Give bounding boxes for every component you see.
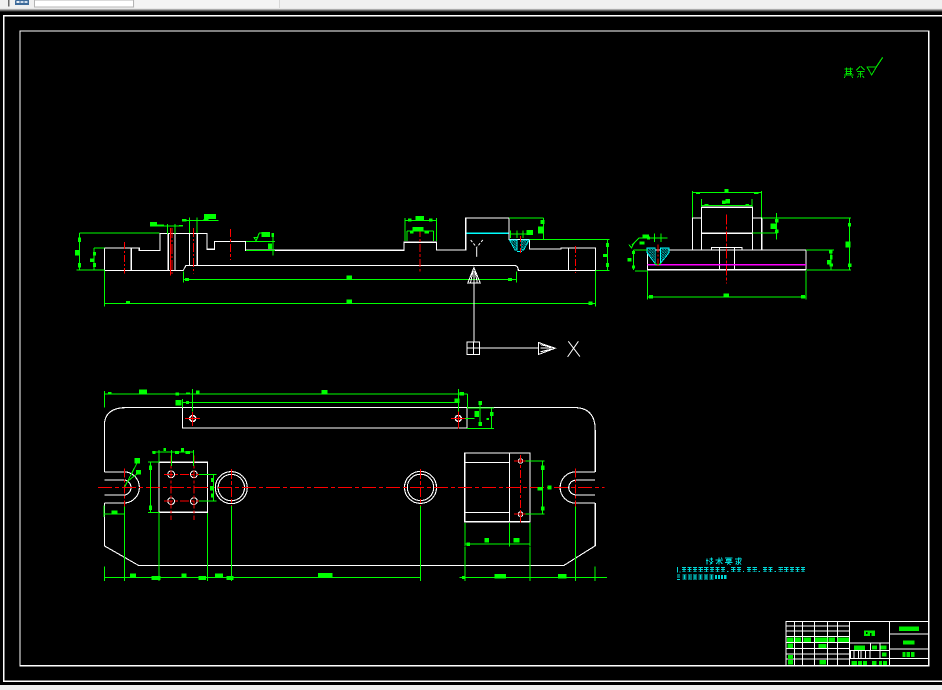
pv block holes dim right (525, 461, 551, 514)
center block hole centerlines (514, 455, 527, 523)
front view countersink hatch (509, 240, 529, 252)
pv slot oblique dim (125, 458, 141, 487)
front view outline (105, 218, 596, 271)
fv dims at countersink step (509, 218, 544, 239)
sv dim plate height right small (806, 250, 834, 270)
pv bottom chain dim left (104, 506, 420, 581)
bolt hole centerlines (164, 456, 201, 521)
circle centerlines (231, 469, 420, 506)
ucs origin box (467, 342, 480, 354)
pv bottom dim right (460, 506, 607, 581)
pv block bottom dim (465, 523, 530, 547)
front view centerline right block (574, 246, 576, 273)
side view magenta gasket line (648, 264, 806, 266)
toolbar strip (0, 0, 942, 12)
title block middle top cell black notches (866, 632, 871, 636)
fv dim right end height (530, 239, 610, 270)
sv dim bottom width (648, 271, 806, 299)
plan view right U-slot (560, 472, 595, 503)
plan view left U-slot (104, 472, 139, 503)
front view centerline small block (419, 229, 421, 272)
pv strip dim line 1 (104, 390, 467, 408)
pv slot edge dim (104, 506, 124, 518)
status bar bottom (0, 685, 942, 690)
strip hole left (190, 416, 196, 422)
ucs X axis arrow (480, 343, 555, 355)
plan view top strip bar (183, 408, 467, 428)
right slot centerline (575, 469, 577, 507)
ucs Y label (471, 240, 483, 257)
technical requirements text (vector strokes) (706, 557, 742, 564)
sv dim head height (753, 213, 851, 240)
fv overall dim line 1 (183, 272, 516, 283)
fv dim left heights (75, 233, 105, 270)
plan view main centerline (98, 486, 605, 488)
title block left grid green entries (787, 638, 849, 665)
front view centerline mid (192, 228, 194, 274)
front view internal edge lines (131, 234, 568, 271)
strip hole right (455, 415, 461, 421)
title block left grid (786, 622, 850, 666)
side view boss and hole (711, 247, 742, 269)
toolbar blue icon (15, 0, 29, 5)
sv dim inner width riser (702, 199, 753, 207)
plan view circle boss 1 (215, 472, 247, 504)
plan view bolt square block (159, 462, 208, 512)
sv dim outer width riser (693, 189, 762, 218)
bolt holes 4x (168, 471, 198, 505)
front view centerline notch (230, 229, 232, 260)
front view cyan edge in raised block (466, 232, 508, 234)
strip hole centerlines (185, 412, 465, 429)
title block middle section (850, 643, 890, 659)
title block right column (890, 634, 929, 659)
side view centerline main (725, 214, 727, 283)
fv dim small block top (405, 216, 437, 241)
left slot centerline (123, 469, 125, 507)
pv square height dim (148, 462, 159, 512)
plan view center block (465, 453, 530, 522)
ucs Y axis arrow (468, 268, 480, 343)
side view centerline countersink (657, 245, 659, 266)
toolbar grip separator (8, 0, 10, 7)
pv strip dim line 2 (176, 389, 460, 412)
plan view circle boss 2 (405, 471, 437, 503)
pv strip right hole dim cluster (465, 401, 494, 429)
sv dim plate thickness left (628, 250, 648, 271)
surface finish note top-right (844, 57, 883, 77)
plan view plate outline (104, 408, 595, 566)
pv square hole row dim (199, 474, 217, 501)
fv finish flag at notch (246, 232, 275, 255)
sv dim countersink top (629, 234, 668, 248)
side view riser tower (702, 207, 753, 233)
sv dim total height right (806, 218, 851, 270)
front view centerline countersink (520, 236, 522, 253)
pv square top chain dim (152, 448, 194, 466)
front view centerline slot (double) (171, 228, 172, 276)
title block right green entries (899, 626, 919, 656)
toolbar combo box (35, 0, 134, 7)
fv dim slot width (150, 222, 183, 234)
fv dim pocket width (182, 214, 218, 233)
title block middle green entries (852, 631, 887, 665)
side view plate outline (648, 250, 806, 270)
center block holes (518, 459, 523, 517)
front view centerline left block (124, 242, 126, 274)
title block outer box (786, 622, 929, 666)
side view countersink hatch (647, 248, 669, 265)
fv overall dim line 2 (105, 271, 596, 307)
ucs X label (568, 341, 580, 357)
side view riser columns (693, 218, 762, 250)
fv dim top-left width (79, 232, 159, 234)
